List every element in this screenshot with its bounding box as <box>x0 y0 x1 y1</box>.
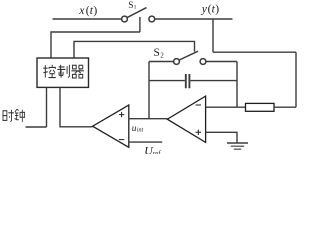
时 <box>3 110 14 122</box>
wire S1 control drop <box>139 17 141 32</box>
plus input symbol A1 <box>119 112 124 117</box>
label S2 <box>154 47 165 59</box>
svg-text:ref: ref <box>153 150 162 154</box>
svg-text:2: 2 <box>160 52 164 59</box>
wire right cap rail <box>236 62 238 108</box>
wire integrator output to comparator plus <box>129 118 168 120</box>
wire S2 right to rail <box>206 61 237 63</box>
minus input symbol A1 <box>119 139 124 141</box>
wire controller to S2 control <box>74 41 195 58</box>
wire integrator minus input <box>206 106 246 108</box>
switch S1 right contact <box>149 16 155 22</box>
wire output y(t) <box>155 18 233 20</box>
svg-text:): ) <box>93 4 97 17</box>
wire clock horizontal <box>26 126 47 128</box>
label y(t) <box>201 2 219 15</box>
svg-text:1: 1 <box>134 5 137 11</box>
switch S2 right contact <box>200 59 206 65</box>
op-amp integrator A2 <box>167 96 205 142</box>
svg-text:x: x <box>78 4 85 17</box>
wire drop from y(t) line <box>212 19 214 52</box>
label S1 <box>128 1 136 11</box>
svg-text:int: int <box>137 128 144 134</box>
label U_ref <box>144 143 161 157</box>
svg-text:): ) <box>215 2 219 15</box>
label 控制器 (controller, drawn strokes) <box>43 65 84 78</box>
制 <box>57 65 69 78</box>
钟 <box>15 109 25 122</box>
wire left rail to S2 <box>149 61 174 63</box>
capacitor C <box>186 74 190 88</box>
ground <box>227 142 248 144</box>
minus input symbol A2 <box>196 104 201 106</box>
switch S2 blade <box>179 51 198 60</box>
switch S1 left contact <box>122 16 128 22</box>
wire integrator plus input <box>206 132 237 143</box>
switch S1 blade <box>127 8 146 18</box>
器 <box>71 65 83 78</box>
label x(t) <box>78 4 97 17</box>
label u_int <box>132 124 144 134</box>
wire comparator output to controller <box>60 87 92 126</box>
wire comparator minus input <box>129 141 162 143</box>
op-amp comparator A1 <box>93 105 129 147</box>
wire capacitor right <box>190 80 237 82</box>
plus input symbol A2 <box>196 130 201 135</box>
wire control horizontal to controller (S1) <box>51 32 140 58</box>
switch S2 left contact <box>174 59 180 65</box>
wire controller to clock <box>46 87 48 127</box>
wire top-right horizontal <box>213 51 296 53</box>
controller box <box>37 58 89 87</box>
wire input x(t) <box>53 18 122 20</box>
wire capacitor left <box>149 80 185 82</box>
resistor R <box>246 103 275 111</box>
控 <box>43 65 56 78</box>
label 时钟 (clock, drawn strokes) <box>3 109 25 122</box>
wire right rail <box>295 52 297 107</box>
svg-text:S: S <box>154 47 160 59</box>
wire left rail <box>148 62 150 119</box>
wire resistor to right rail <box>274 106 296 108</box>
